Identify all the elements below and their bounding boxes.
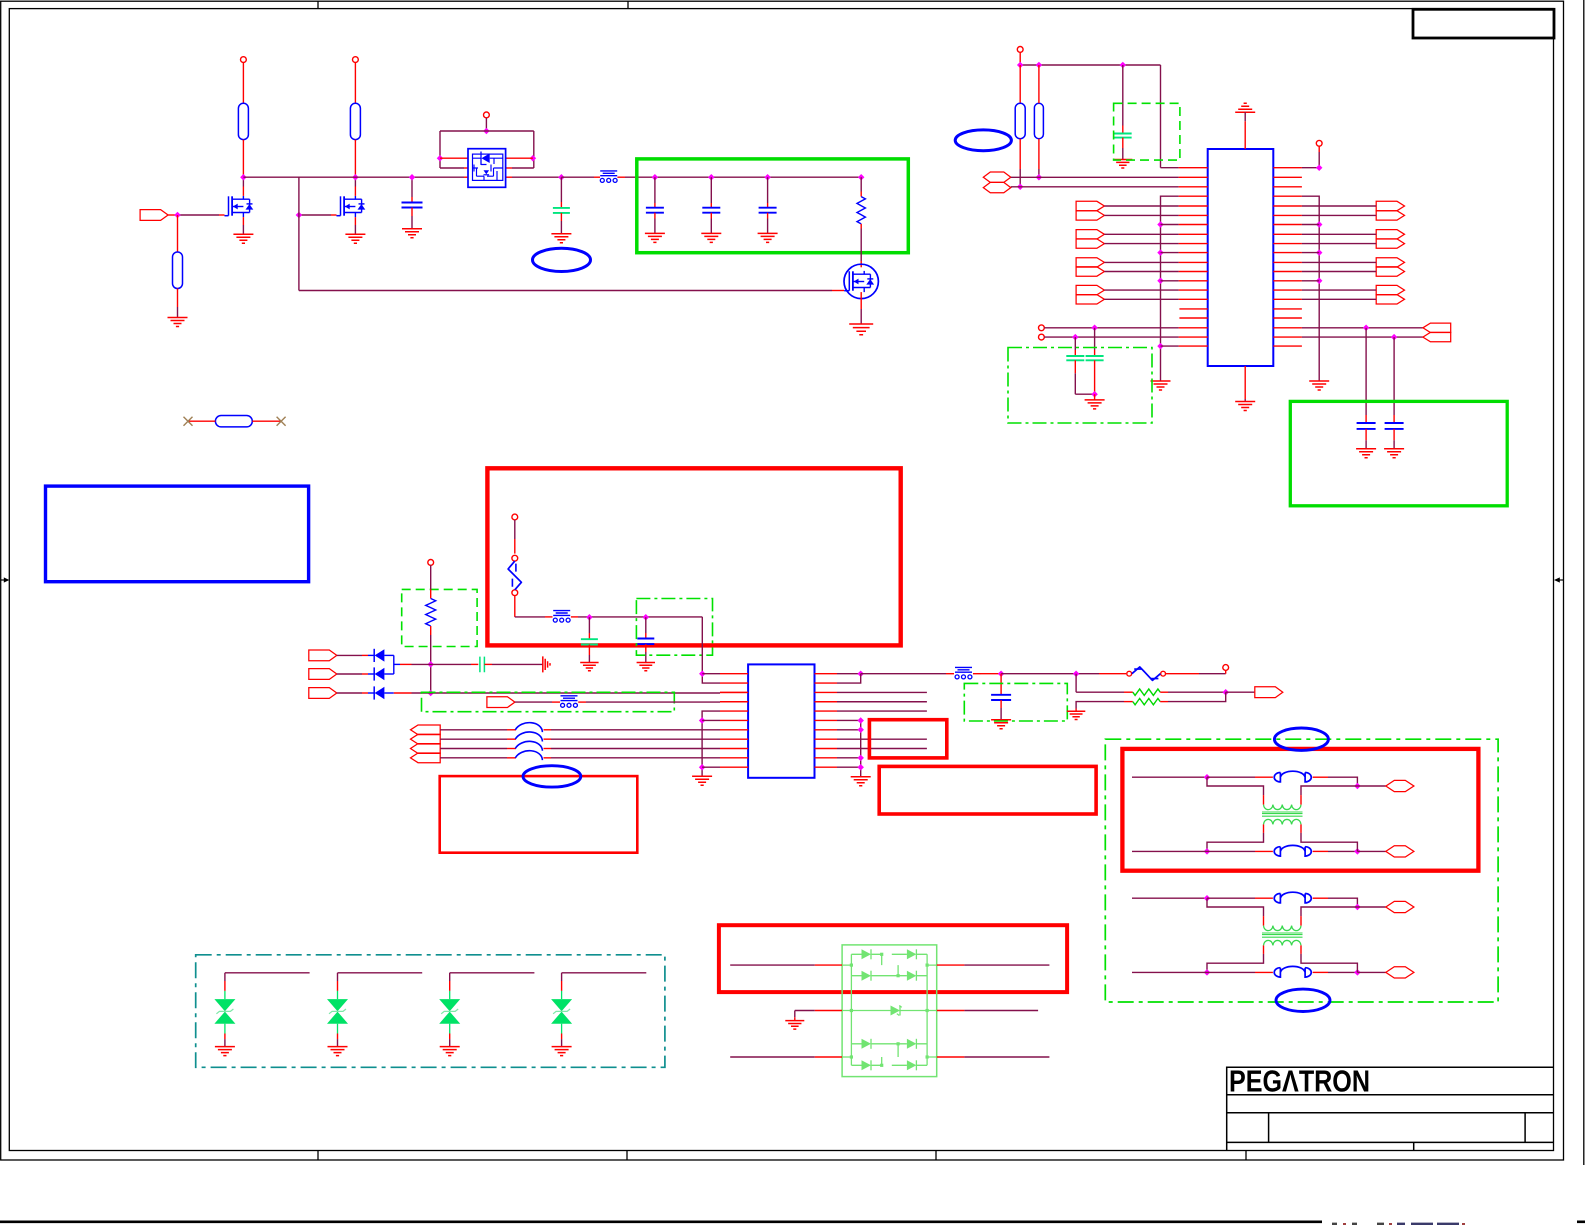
node R6 bottom bbox=[1017, 184, 1024, 191]
wire row17 bbox=[1044, 327, 1178, 329]
green dash-dot box C14 bbox=[964, 683, 1067, 721]
wire TVS3 bbox=[450, 972, 535, 974]
node bus tap bbox=[1157, 343, 1164, 350]
input tag T2 bbox=[309, 669, 337, 680]
ground right bus bbox=[1309, 381, 1329, 390]
diode D2 bbox=[373, 667, 375, 680]
wire B3 gnd bus bbox=[702, 711, 720, 776]
wire TA in bbox=[1132, 776, 1207, 778]
wire row1 right bbox=[837, 673, 861, 675]
node bbox=[1204, 848, 1211, 855]
green dashed box R8 bbox=[402, 589, 477, 646]
wire TB in bbox=[1132, 971, 1207, 973]
node R7 bottom bbox=[1036, 174, 1043, 181]
wire bbox=[384, 654, 393, 656]
wire bus tap bbox=[1161, 252, 1179, 254]
capacitor C3 bbox=[654, 177, 656, 203]
wire bbox=[578, 701, 586, 703]
tag pair R1 lower bbox=[1376, 211, 1404, 220]
node bus bbox=[857, 717, 864, 724]
ground C2 bbox=[551, 234, 571, 243]
ground C9 bbox=[1356, 449, 1376, 458]
node bbox=[1354, 783, 1361, 790]
node bbox=[1204, 969, 1211, 976]
wire bus tap bbox=[1302, 252, 1319, 254]
node bbox=[998, 670, 1005, 677]
svg-text:PEGΛTRON: PEGΛTRON bbox=[1229, 1064, 1370, 1099]
wire bbox=[242, 63, 244, 104]
tag pair L4 upper bbox=[1076, 285, 1104, 294]
array diodes top bbox=[862, 949, 872, 959]
wire bbox=[430, 565, 432, 589]
red highlight box big bbox=[487, 468, 900, 645]
red highlight box inductors bbox=[440, 776, 638, 853]
ground Z4 bbox=[552, 1047, 572, 1056]
capacitor C9 bbox=[1365, 328, 1367, 415]
tag pair L2 upper bbox=[1076, 230, 1104, 239]
wire array row1 bbox=[730, 964, 815, 966]
ground C11 bbox=[580, 663, 598, 671]
array row wiring bbox=[842, 965, 851, 1010]
ground C5 bbox=[758, 233, 778, 242]
node bus tap bbox=[1316, 278, 1323, 285]
wire Q1 drain bbox=[242, 187, 244, 196]
right gnd bus bbox=[1302, 196, 1319, 381]
wire jog B right bbox=[1300, 945, 1302, 954]
wire jog A left bbox=[1207, 898, 1264, 916]
wire bbox=[515, 701, 552, 703]
input tag T1 bbox=[309, 650, 337, 661]
right border centre arrow bbox=[1560, 579, 1565, 581]
node bbox=[1204, 774, 1211, 781]
capacitor C4 bbox=[710, 177, 712, 203]
wire jog B left bbox=[1263, 945, 1265, 954]
resistor R5 horizontal bbox=[215, 416, 252, 427]
node bbox=[1354, 904, 1361, 911]
ground U2 bottom bbox=[1235, 402, 1255, 411]
note ellipse 5 bbox=[1276, 989, 1330, 1011]
capacitor C8 green bbox=[1094, 328, 1096, 350]
wire TVS2 bbox=[338, 972, 423, 974]
border tick top 1 bbox=[317, 1, 319, 8]
wire bbox=[384, 692, 393, 694]
capacitor C7 green bbox=[1074, 337, 1076, 350]
wire row18 right bbox=[1302, 336, 1423, 338]
wire top rail bbox=[1019, 52, 1021, 65]
ground Q1 bbox=[233, 234, 253, 243]
ground C10 bbox=[1384, 449, 1404, 458]
page right edge line bbox=[1583, 0, 1585, 1165]
wire D1D2 out bbox=[394, 663, 400, 665]
node Q2 drain bbox=[352, 174, 359, 181]
wire bbox=[1104, 205, 1178, 207]
wire row1 left bbox=[702, 673, 720, 675]
power bar inverted ground bbox=[1235, 103, 1255, 112]
page bottom heavy line bbox=[0, 1221, 1322, 1224]
power symbol P8 bbox=[1223, 665, 1229, 671]
wire row17 right bbox=[1302, 327, 1423, 329]
ground C12 bbox=[637, 663, 655, 671]
wire bbox=[1104, 233, 1178, 235]
ground Z2 bbox=[328, 1047, 348, 1056]
inductor L3 bbox=[515, 741, 542, 750]
ground bus R bbox=[851, 777, 871, 786]
tag pair L1 lower bbox=[1076, 211, 1104, 220]
wire bbox=[242, 140, 244, 178]
connector tag A bbox=[1386, 780, 1414, 791]
node loop right bbox=[530, 155, 537, 162]
wire to tag A bbox=[1357, 785, 1385, 787]
wire bbox=[1104, 298, 1178, 300]
choke A bbox=[1274, 773, 1280, 782]
wire jog B right bbox=[1300, 824, 1302, 833]
array internal rails bbox=[851, 954, 927, 1065]
transformer winding secondary bbox=[1264, 940, 1302, 945]
left border centre arrow bbox=[1, 579, 6, 581]
capacitor C2 green bbox=[560, 177, 562, 202]
wire bbox=[617, 176, 625, 178]
ground Z3 bbox=[440, 1047, 460, 1056]
fuse F1 vertical bbox=[512, 555, 518, 561]
node rail J2 bbox=[558, 174, 565, 181]
node bbox=[1036, 62, 1043, 69]
wire D1-D2 join bbox=[393, 655, 395, 674]
wire bbox=[1104, 214, 1178, 216]
note ellipse 2 bbox=[955, 130, 1011, 151]
wire bbox=[177, 289, 179, 308]
transformer winding secondary bbox=[1264, 819, 1302, 824]
wire bbox=[1302, 205, 1376, 207]
ground C4 bbox=[701, 233, 721, 242]
capacitor C1 bbox=[411, 177, 413, 197]
node bbox=[427, 690, 434, 697]
wire Q1 source bbox=[242, 217, 244, 225]
wire pin row 1 left bbox=[440, 157, 464, 159]
IC U3 bbox=[748, 664, 814, 777]
transformer winding primary bbox=[1264, 805, 1302, 810]
wire bbox=[702, 766, 720, 768]
resistor R7 bbox=[1034, 103, 1043, 138]
node bbox=[1091, 325, 1098, 332]
TVS diode Z2 bbox=[327, 999, 348, 1011]
resistor R3 bbox=[173, 252, 183, 289]
power symbol P3 bbox=[484, 112, 490, 118]
lead right bbox=[252, 420, 281, 422]
power symbol P6 bbox=[512, 514, 518, 520]
green dash-dot box transformers bbox=[1105, 739, 1498, 1002]
wire bbox=[1104, 261, 1178, 263]
wire B2 bus bbox=[702, 617, 720, 683]
wire long gate net bbox=[299, 290, 832, 292]
U3 left pins bbox=[720, 674, 748, 768]
capacitor C6 green bbox=[1122, 65, 1124, 126]
wire bus tap bbox=[1161, 280, 1179, 282]
diode array box bbox=[842, 945, 937, 1077]
resistor R10 zigzag bbox=[1133, 698, 1160, 704]
wire rail corner down bbox=[1160, 65, 1162, 168]
ferrite bead FB4 bbox=[955, 667, 972, 672]
wire bus tap bbox=[1302, 224, 1319, 226]
node cap C5 bbox=[764, 174, 771, 181]
wire pin row 2 right bbox=[506, 167, 512, 169]
node bbox=[1391, 334, 1398, 341]
ground Q3 bbox=[849, 324, 873, 335]
wire main rail bbox=[243, 176, 464, 178]
input tag CON1 bbox=[140, 210, 168, 221]
tag pair right-bottom upper bbox=[1423, 323, 1451, 332]
node Q2 gate bbox=[296, 212, 303, 219]
node C7C8 bbox=[1091, 391, 1098, 398]
wire rail to bead bbox=[561, 176, 594, 178]
tag pair R3 lower bbox=[1376, 267, 1404, 276]
wire resnet bbox=[1075, 674, 1077, 693]
node bus tap bbox=[1316, 249, 1323, 256]
border tick bottom 2 bbox=[626, 1151, 628, 1161]
blue note box bbox=[46, 486, 309, 582]
node bbox=[1354, 848, 1361, 855]
wire Q3 source bbox=[860, 292, 862, 309]
title block frame bbox=[1227, 1067, 1554, 1150]
note ellipse 1 bbox=[533, 248, 591, 271]
red highlight box R3 bbox=[869, 720, 946, 758]
node bus bbox=[857, 755, 864, 762]
transistor Q3 circled bbox=[844, 264, 878, 298]
wire bbox=[337, 692, 362, 694]
wire bbox=[1302, 298, 1376, 300]
node bus tap bbox=[1157, 278, 1164, 285]
transistor Q1 bbox=[225, 215, 229, 217]
ground B3 bbox=[692, 776, 712, 785]
green dash-dot box tag bbox=[422, 692, 675, 711]
wire bbox=[1302, 271, 1376, 273]
wire bus tap bbox=[1161, 224, 1179, 226]
tag pair L3 upper bbox=[1076, 258, 1104, 267]
wire bbox=[1302, 214, 1376, 216]
capacitor C14 bbox=[1000, 674, 1002, 695]
diode D1 bbox=[373, 649, 375, 662]
ground C3 bbox=[645, 233, 665, 242]
transformer core bbox=[1262, 933, 1303, 937]
green dash-dot box C12 bbox=[636, 599, 712, 656]
node C1 bbox=[409, 174, 416, 181]
node bus tap bbox=[1316, 221, 1323, 228]
power stub A bbox=[1039, 325, 1045, 331]
ground Z1 bbox=[215, 1047, 235, 1056]
node bbox=[427, 661, 434, 668]
wire array row3 bbox=[730, 1056, 815, 1058]
wire bbox=[1104, 271, 1178, 273]
node bbox=[1072, 334, 1079, 341]
ground C1 bbox=[402, 229, 422, 238]
green highlight box 1 bbox=[637, 159, 909, 253]
node bbox=[1316, 164, 1323, 171]
green dashed box C6 bbox=[1114, 103, 1180, 160]
border tick top 2 bbox=[627, 1, 629, 8]
teal dash-dot box TVS bbox=[196, 955, 665, 1068]
wire TVS4 bbox=[562, 972, 647, 974]
green highlight box 2 bbox=[1290, 401, 1507, 505]
tag pair R4 lower bbox=[1376, 295, 1404, 304]
tag pair L2 lower bbox=[1076, 239, 1104, 248]
node cap C4 bbox=[708, 174, 715, 181]
power stub B bbox=[1039, 334, 1045, 340]
inductor L1 bbox=[515, 723, 542, 732]
connector tag B bbox=[1386, 967, 1414, 978]
series capacitor C13 bbox=[471, 663, 478, 665]
note ellipse 4 bbox=[1274, 728, 1328, 750]
node bbox=[1222, 689, 1229, 696]
wire Q2 source bbox=[354, 217, 356, 225]
wire hex1 bbox=[1011, 176, 1179, 178]
tag pair L4 lower bbox=[1076, 295, 1104, 304]
ground bbox=[168, 318, 188, 327]
wire bbox=[354, 63, 356, 104]
left gnd bus bbox=[1161, 196, 1179, 381]
node bbox=[1204, 895, 1211, 902]
wire bbox=[1302, 261, 1376, 263]
chassis ground sideways bbox=[543, 656, 550, 672]
wire bbox=[177, 215, 179, 252]
tag pair R1 upper bbox=[1376, 201, 1404, 210]
node bbox=[699, 670, 706, 677]
wire jog A right bbox=[1301, 907, 1357, 916]
choke B bbox=[1274, 847, 1280, 856]
wire pin row 3 right bbox=[506, 176, 512, 178]
wire bus tap bbox=[1302, 280, 1319, 282]
node loop left bbox=[437, 155, 444, 162]
ground left bus bbox=[1151, 381, 1171, 390]
power symbol P4 bbox=[1017, 47, 1023, 53]
page bottom heavy line right stub bbox=[1577, 1221, 1585, 1224]
wire bbox=[354, 140, 356, 178]
wire TA in bbox=[1132, 897, 1207, 899]
wire bus tap bbox=[1161, 345, 1179, 347]
ferrite bead FB3 bbox=[561, 696, 578, 701]
wire bbox=[514, 596, 516, 612]
ground C7C8 bbox=[1085, 400, 1105, 409]
IC U2 bbox=[1208, 149, 1274, 366]
resistor R4 zigzag bbox=[860, 177, 862, 191]
ground C14 bbox=[991, 720, 1011, 729]
wire bbox=[1318, 146, 1320, 152]
wire bbox=[1166, 673, 1200, 675]
wire TB in bbox=[1132, 850, 1207, 852]
power symbol P2 bbox=[353, 57, 359, 63]
TVS diode Z4 bbox=[551, 999, 572, 1011]
revision box top right bbox=[1413, 9, 1554, 38]
wire bbox=[571, 616, 578, 618]
cut-off footer text remnants bbox=[1332, 1223, 1384, 1225]
wire pin row 1 right bbox=[506, 157, 533, 159]
wire to tag B bbox=[1357, 971, 1385, 973]
node bbox=[857, 670, 864, 677]
wire TVS1 bbox=[225, 972, 310, 974]
no-connect X left bbox=[184, 417, 193, 426]
node bbox=[699, 717, 706, 724]
U3 right pins bbox=[815, 674, 838, 768]
wire bbox=[1104, 289, 1178, 291]
green dash-dot box caps bbox=[1008, 348, 1152, 424]
resistor R9 zigzag bbox=[1133, 689, 1160, 695]
wire bbox=[1302, 233, 1376, 235]
resistor R2 bbox=[350, 103, 360, 139]
TVS diode Z3 bbox=[439, 999, 460, 1011]
wire branch down bbox=[298, 177, 300, 290]
U2 left pins bbox=[1179, 168, 1208, 346]
wire bbox=[1094, 394, 1096, 400]
input tag T3 bbox=[309, 688, 337, 699]
border tick bottom 3 bbox=[935, 1151, 937, 1161]
tag T5 bbox=[1255, 687, 1283, 698]
node bus bbox=[857, 764, 864, 771]
tag pair L3 lower bbox=[1076, 267, 1104, 276]
U1 internals bbox=[473, 157, 503, 159]
wire bbox=[702, 719, 720, 721]
node J1 bbox=[174, 212, 181, 219]
capacitor C5 bbox=[767, 177, 769, 203]
red highlight box R4 bbox=[879, 766, 1096, 814]
choke B bbox=[1274, 968, 1280, 977]
resistor R6 bbox=[1019, 65, 1021, 103]
resistor R1 bbox=[238, 103, 248, 139]
connector tag A bbox=[1386, 901, 1414, 912]
wire row18 bbox=[1044, 336, 1178, 338]
node Q1 drain bbox=[240, 174, 247, 181]
wire jog A right bbox=[1301, 786, 1357, 795]
lead left bbox=[188, 420, 215, 422]
wire bbox=[337, 654, 362, 656]
red highlight box R6 bbox=[719, 925, 1067, 992]
wire hex2 bbox=[1011, 186, 1179, 188]
U2 right pins bbox=[1273, 168, 1302, 346]
connector tag B bbox=[1386, 846, 1414, 857]
wire bbox=[1302, 289, 1376, 291]
transformer core bbox=[1262, 812, 1303, 816]
power symbol P1 bbox=[241, 57, 247, 63]
bidir connector pair 1 bbox=[983, 172, 1011, 182]
tag T4 bbox=[487, 697, 515, 708]
node bus tap bbox=[1157, 221, 1164, 228]
wire bbox=[430, 626, 432, 635]
output tags stack bbox=[411, 725, 441, 735]
tag pair L1 upper bbox=[1076, 201, 1104, 210]
array zener mid bbox=[891, 1006, 901, 1016]
node R4 top bbox=[858, 174, 865, 181]
diode D3 bbox=[373, 686, 375, 699]
wire to fuse bbox=[1099, 673, 1126, 675]
wire bbox=[1302, 243, 1376, 245]
row B from ground bbox=[1067, 711, 1085, 719]
node bbox=[1363, 325, 1370, 332]
wire Q2 gate bbox=[299, 214, 331, 216]
resistor R8 zigzag bbox=[426, 599, 436, 627]
tag pair R2 lower bbox=[1376, 239, 1404, 248]
node bbox=[699, 764, 706, 771]
dual mosfet U1 package bbox=[468, 149, 506, 188]
node bus tap bbox=[1157, 249, 1164, 256]
TVS diode Z1 bbox=[214, 999, 235, 1011]
wire bbox=[485, 118, 487, 131]
wire row2 right corner bbox=[837, 674, 861, 683]
node loop top bbox=[483, 128, 490, 135]
wire rows 3-5 right open bbox=[837, 692, 927, 711]
inductor L2 bbox=[515, 732, 542, 741]
ground Q2 bbox=[345, 234, 365, 243]
wire bbox=[514, 520, 516, 539]
node bbox=[1354, 969, 1361, 976]
inductor wires bbox=[440, 729, 507, 731]
wire jog B left bbox=[1263, 824, 1265, 833]
